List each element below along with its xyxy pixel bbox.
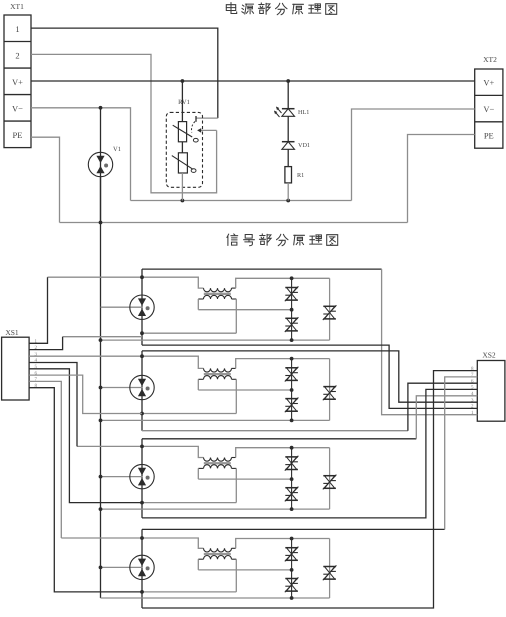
transformer T4 secondary winding — [198, 556, 236, 560]
wire channel3 secondary left lead to TVS midpoint — [198, 468, 291, 479]
TVS diode channel4 lower — [285, 577, 299, 592]
svg-text:XS1: XS1 — [5, 328, 19, 337]
wire channel2 TVS column — [291, 359, 293, 421]
wire channel2 GDT vertical lead — [141, 351, 143, 431]
junction V+/HL1 — [286, 79, 290, 83]
wire channel3 secondary right lead — [235, 468, 237, 502]
svg-text:HL1: HL1 — [298, 109, 309, 116]
transformer T4 core — [204, 553, 231, 555]
junction channel1 line-B / GDT bottom — [140, 331, 144, 335]
svg-text:PE: PE — [484, 130, 494, 140]
wire channel4 line-A output riser to XS2 — [445, 377, 478, 530]
TVS diode channel2 lower — [285, 398, 299, 413]
svg-text:V1: V1 — [113, 146, 121, 153]
transformer T2 secondary winding — [198, 376, 236, 380]
wire channel1 secondary right lead — [235, 299, 237, 333]
wire HL1-VD1 lead — [287, 116, 289, 141]
wire channel2 GDT center electrode to ground bus — [99, 386, 143, 390]
wire channel3 parallel TVS branch — [329, 448, 331, 509]
gas discharge tube channel1 — [130, 295, 154, 319]
junction PE/ground bus — [99, 221, 103, 225]
svg-text:VD1: VD1 — [298, 142, 310, 149]
wire channel2 line-B output riser to XS2 — [408, 383, 477, 431]
junction channel2 ground / TVS bottom — [290, 419, 294, 423]
junction channel1 TVS midpoint — [290, 308, 294, 312]
wire V- XT1 side — [31, 108, 131, 201]
gas discharge tube channel4 — [130, 555, 154, 579]
TVS diode channel2 parallel — [323, 386, 337, 401]
resistor R1 — [285, 167, 292, 183]
TVS diode channel1 lower — [285, 317, 299, 332]
wire channel1 GDT vertical lead — [141, 269, 143, 345]
junction V-/R1 bottom — [286, 199, 290, 203]
wire channel2 filtered line-A — [236, 359, 330, 369]
terminal block XT2 — [475, 69, 503, 148]
wire PE XT2 side — [408, 135, 475, 223]
RV1 fixed contact 1 — [196, 116, 218, 122]
junction channel4 line-A / GDT top — [140, 536, 144, 540]
junction channel1 line-A / GDT top — [140, 275, 144, 279]
wire channel1 line-B — [142, 332, 236, 334]
wire RV1 inter-varistor lead — [181, 142, 183, 153]
wire XS1 pin7 lead — [29, 381, 61, 538]
XS2 pin numbers 8-1 — [471, 366, 474, 416]
wire channel1 TVS column — [291, 278, 293, 340]
wire channel2 parallel TVS branch — [329, 359, 331, 421]
wire channel3 line-A input — [77, 446, 204, 457]
wire channel4 line-A rail — [142, 528, 445, 530]
junction channel2 line-A / GDT top — [140, 354, 144, 358]
XS1 pin numbers 1-8 — [35, 339, 38, 389]
label XT1 — [10, 2, 24, 11]
wire channel3 line-A rail — [142, 438, 416, 440]
wire V+ from XT1 to XT2 — [31, 80, 475, 82]
wire channel3 line-A output riser to XS2 — [416, 396, 477, 439]
wire channel1 parallel TVS branch — [329, 278, 331, 340]
wire channel2 secondary left lead to TVS midpoint — [198, 379, 291, 390]
wire net2 from XT1 pin2 to RV1 contact 2 — [31, 54, 217, 192]
junction channel2 line-B / GDT bottom — [140, 412, 144, 416]
junction channel3 ground / TVS bottom — [290, 507, 294, 511]
junction channel2 TVS column top — [290, 357, 294, 361]
wire channel4 ground line — [101, 597, 330, 599]
junction channel4 line-B / GDT bottom — [140, 590, 144, 594]
wire channel1 secondary left lead to TVS midpoint — [198, 299, 291, 310]
wire channel2 line-B output — [142, 430, 408, 432]
gas discharge tube channel3 — [130, 464, 154, 488]
connector XS2 — [477, 361, 505, 422]
svg-text:XT2: XT2 — [483, 55, 497, 64]
label V1 — [113, 146, 121, 153]
transformer T1 primary winding — [204, 288, 236, 292]
junction channel2 TVS midpoint — [290, 388, 294, 392]
svg-text:XS2: XS2 — [482, 351, 496, 360]
diode VD1 — [282, 142, 295, 150]
wire channel4 parallel TVS branch — [329, 539, 331, 599]
transformer T3 secondary winding — [198, 465, 236, 469]
varistor RV1a — [173, 122, 199, 142]
wire channel1 ground line — [99, 338, 330, 342]
wire channel4 TVS column — [291, 539, 293, 599]
wire net1 from XT1 pin1 to RV1 contact — [31, 28, 218, 118]
gas discharge tube V1 — [88, 152, 112, 176]
wire channel4 line-A input — [61, 538, 203, 548]
wire channel3 line-B output — [142, 389, 477, 518]
wire channel1 filtered line-A — [236, 278, 330, 288]
transformer T3 core — [204, 462, 231, 464]
TVS diode channel1 upper — [285, 286, 299, 301]
wire XS1 pin4 lead — [29, 363, 77, 447]
junction channel3 TVS column top — [290, 446, 294, 450]
wire V- collector — [131, 200, 352, 202]
TVS diode channel3 upper — [285, 456, 299, 471]
label XS2 — [482, 351, 496, 360]
wire channel1 line-A output riser to XS2 — [382, 269, 478, 415]
label RV1 — [178, 99, 190, 106]
transformer T4 primary winding — [204, 548, 236, 552]
transformer T3 primary winding — [204, 458, 236, 462]
wire HL1 top lead — [287, 81, 289, 109]
junction V-/V1 — [99, 106, 103, 110]
wire channel4 secondary left lead to TVS midpoint — [198, 559, 291, 570]
wire channel1 line-B output — [142, 345, 477, 408]
wire channel3 GDT center electrode to ground bus — [99, 475, 143, 479]
wire channel3 filtered line-A — [236, 448, 330, 458]
TVS diode channel4 upper — [285, 547, 299, 562]
terminal block XT1 — [4, 15, 31, 148]
wire channel3 TVS column — [291, 448, 293, 509]
varistor module RV1 dashed enclosure — [166, 112, 202, 187]
wire XS1 pin3 lead — [0, 0, 1, 1]
wire XS1 pin6 lead — [29, 375, 142, 413]
wire RV1 bottom lead — [181, 173, 183, 201]
junction channel3 line-A / GDT top — [140, 445, 144, 449]
LED HL1 — [274, 107, 295, 118]
svg-text:1: 1 — [15, 24, 19, 34]
svg-text:R1: R1 — [297, 172, 304, 179]
label VD1 — [298, 142, 310, 149]
wire channel4 GDT center electrode to ground bus — [99, 566, 143, 570]
wire channel3 GDT vertical lead — [141, 439, 143, 518]
label R1 — [297, 172, 304, 179]
wire channel2 line-B — [142, 413, 236, 415]
RV1 disconnect linkage — [192, 122, 195, 133]
connector XS1 — [2, 337, 30, 400]
TVS diode channel3 parallel — [323, 475, 337, 490]
label XT2 — [483, 55, 497, 64]
transformer T1 core — [204, 293, 231, 295]
RV1 fixed contact 2 — [197, 128, 216, 133]
wire channel4 secondary right lead — [235, 559, 237, 592]
ground bus vertical — [100, 177, 102, 598]
ground bus to channel4 ground line corner — [0, 0, 1, 1]
TVS diode channel2 upper — [285, 367, 299, 382]
wire channel3 line-B — [142, 502, 236, 504]
wire channel2 line-A rail — [142, 351, 477, 402]
wire channel4 GDT vertical lead — [141, 529, 143, 608]
junction channel1 ground / TVS bottom — [290, 338, 294, 342]
wire channel4 line-B — [142, 591, 236, 593]
wire channel4 filtered line-A — [236, 539, 330, 549]
wire channel4 line-B output — [142, 371, 477, 608]
label XS1 — [5, 328, 19, 337]
wire channel1 line-A input — [48, 277, 204, 288]
svg-text:2: 2 — [15, 50, 19, 60]
svg-text:V−: V− — [483, 104, 494, 114]
wire channel1 line-A rail — [142, 268, 382, 270]
wire channel1 GDT center electrode to ground bus — [101, 306, 143, 308]
gas discharge tube channel2 — [130, 375, 154, 399]
wire XS1 pin5 lead — [29, 369, 142, 503]
junction channel4 ground / TVS bottom — [290, 596, 294, 600]
svg-text:V+: V+ — [483, 78, 494, 88]
wire R1 bottom lead — [287, 183, 289, 201]
wire XS1 pin8 lead — [29, 388, 142, 592]
varistor RV1b — [172, 153, 196, 173]
wire channel2 ground line — [99, 419, 330, 423]
junction channel4 TVS column top — [290, 537, 294, 541]
label HL1 — [298, 109, 309, 116]
junction V-/RV1 bottom — [181, 199, 185, 203]
junction channel4 TVS midpoint — [290, 568, 294, 572]
wire PE from XT1 — [31, 137, 60, 222]
wire channel3 ground line — [99, 507, 330, 511]
svg-text:RV1: RV1 — [178, 99, 190, 106]
junction V+/RV1 — [181, 79, 185, 83]
title: power section schematic (Chinese) — [226, 3, 336, 15]
wire channel2 secondary right lead — [235, 379, 237, 413]
wire RV1 top lead — [181, 81, 183, 122]
wire VD1-R1 lead — [287, 149, 289, 166]
wire PE collector — [60, 222, 408, 224]
transformer T2 primary winding — [204, 368, 236, 372]
wire XS1 pin1 lead — [29, 277, 47, 343]
TVS diode channel4 parallel — [323, 565, 337, 580]
TVS diode channel1 parallel — [323, 305, 337, 320]
wire V1 vertical lead — [100, 108, 102, 223]
transformer T1 secondary winding — [198, 295, 236, 299]
wire channel1 line-B input — [63, 336, 142, 338]
wire V- XT2 side — [352, 109, 475, 201]
junction channel3 line-B / GDT bottom — [140, 501, 144, 505]
junction channel1 TVS column top — [290, 276, 294, 280]
wire XS1 pin2 lead — [29, 337, 63, 350]
wire channel2 line-A input — [29, 356, 203, 368]
svg-text:XT1: XT1 — [10, 2, 24, 11]
title: signal section schematic (Chinese) — [227, 234, 338, 246]
svg-text:V+: V+ — [12, 77, 23, 87]
junction channel3 TVS midpoint — [290, 477, 294, 481]
TVS diode channel3 lower — [285, 487, 299, 502]
svg-text:V−: V− — [12, 103, 23, 113]
svg-text:PE: PE — [13, 130, 23, 140]
transformer T2 core — [204, 373, 231, 375]
